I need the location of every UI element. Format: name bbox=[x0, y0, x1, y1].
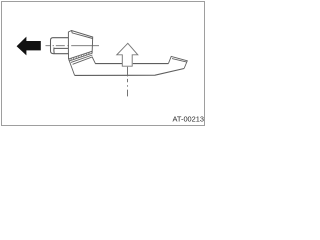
centerline vertical below bar bbox=[127, 67, 129, 97]
cylinder stub bbox=[51, 38, 69, 54]
svg-text:AT-00213: AT-00213 bbox=[173, 115, 205, 124]
wire bar top edge right bbox=[133, 63, 169, 65]
centerline horizontal (part axis) bbox=[46, 45, 100, 47]
black arrow pointing left bbox=[17, 37, 41, 56]
body (cone) bbox=[68, 31, 92, 60]
up arrow outline bbox=[117, 43, 138, 66]
wire bar top edge left bbox=[95, 63, 122, 65]
frame border bbox=[2, 2, 205, 126]
hatching ticks bbox=[71, 52, 90, 60]
node left tab hatched bbox=[69, 51, 96, 75]
node right tab bbox=[168, 56, 187, 68]
wire bar bottom edge bbox=[75, 69, 185, 76]
